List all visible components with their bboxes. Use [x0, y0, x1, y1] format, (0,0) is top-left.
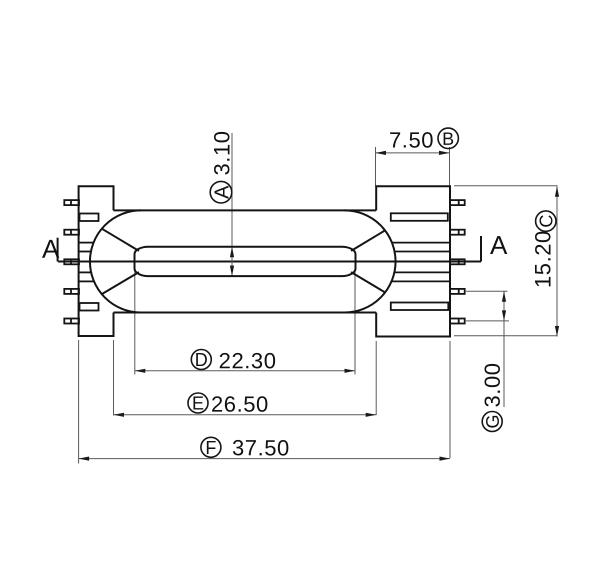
svg-text:7.50: 7.50: [389, 128, 434, 153]
svg-text:G: G: [483, 414, 503, 428]
svg-text:A: A: [490, 230, 508, 260]
svg-text:A: A: [211, 185, 233, 199]
svg-text:26.50: 26.50: [211, 392, 269, 417]
svg-text:15.20: 15.20: [530, 230, 555, 288]
svg-text:3.00: 3.00: [480, 362, 505, 407]
svg-text:22.30: 22.30: [219, 348, 277, 373]
svg-text:A: A: [42, 234, 60, 264]
svg-text:C: C: [536, 215, 556, 228]
svg-text:3.10: 3.10: [210, 130, 235, 175]
svg-text:E: E: [192, 394, 204, 414]
svg-text:37.50: 37.50: [232, 435, 290, 460]
svg-text:F: F: [205, 438, 216, 458]
svg-text:D: D: [195, 350, 208, 370]
svg-text:B: B: [442, 129, 454, 149]
